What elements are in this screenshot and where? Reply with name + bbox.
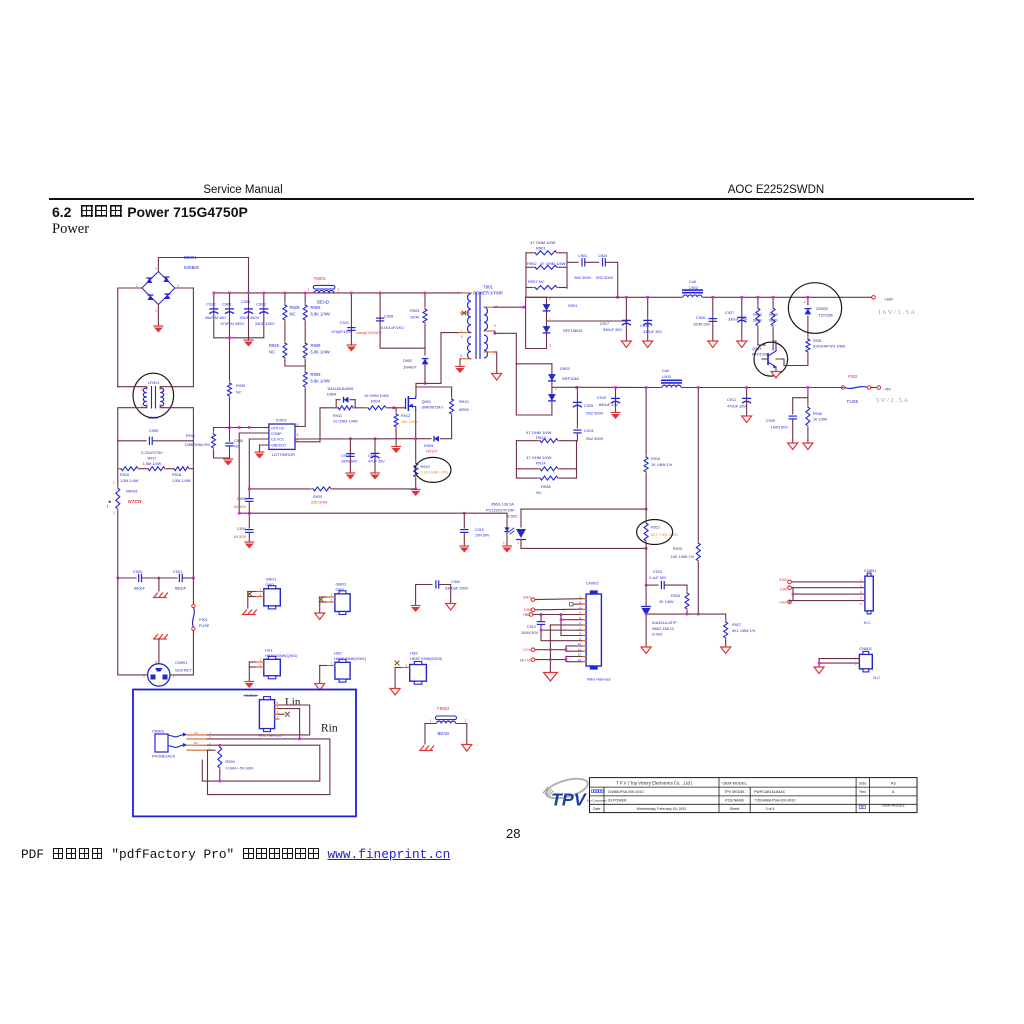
ground C911 bbox=[742, 416, 752, 423]
svg-text:1: 1 bbox=[260, 588, 262, 592]
svg-text:Sheet: Sheet bbox=[730, 807, 739, 811]
svg-text:R930: R930 bbox=[236, 383, 246, 388]
svg-text:OEM MODEL: OEM MODEL bbox=[722, 780, 747, 785]
svg-text:NTCR: NTCR bbox=[128, 499, 142, 505]
svg-text:C917: C917 bbox=[600, 321, 609, 326]
ground R927 bbox=[721, 647, 731, 654]
wire audio Rin path bbox=[208, 738, 330, 795]
svg-text:C925: C925 bbox=[584, 403, 594, 408]
svg-text:3: 3 bbox=[277, 705, 279, 709]
svg-text:2N2 500V: 2N2 500V bbox=[574, 275, 592, 280]
annotation circle R919 bbox=[415, 457, 451, 482]
label D904 bbox=[327, 386, 353, 397]
svg-text:C910: C910 bbox=[597, 395, 607, 400]
ground T901 pin5 bbox=[455, 367, 465, 374]
resistor R903 bbox=[410, 292, 427, 325]
capacitor C917 bbox=[600, 296, 631, 341]
svg-text:2: 2 bbox=[338, 288, 340, 292]
svg-text:F902: F902 bbox=[848, 374, 858, 379]
svg-text:R926: R926 bbox=[671, 594, 680, 598]
ground C914 bbox=[345, 473, 355, 480]
ground HS3 bbox=[390, 689, 400, 696]
svg-text:CN902: CN902 bbox=[586, 581, 599, 586]
svg-text:5: 5 bbox=[860, 602, 862, 606]
ground R919 bbox=[411, 488, 421, 496]
wire CN902 VOL pin10 bbox=[535, 646, 582, 650]
wire CN902 pin6 bbox=[550, 624, 581, 626]
resistor R931b bbox=[806, 337, 846, 354]
svg-text:Rin: Rin bbox=[321, 722, 338, 735]
thermistor NR901 bbox=[107, 469, 142, 578]
svg-text:ZD902: ZD902 bbox=[816, 306, 829, 311]
inductor L902 bbox=[682, 279, 703, 297]
stub CN904 pin2 X bbox=[279, 712, 290, 717]
svg-text:LD7750RGR: LD7750RGR bbox=[272, 452, 295, 457]
ground Q903 bbox=[771, 372, 781, 379]
svg-text:ENA: ENA bbox=[779, 578, 787, 582]
svg-text:R917: R917 bbox=[147, 457, 156, 461]
svg-text:C906: C906 bbox=[384, 314, 393, 319]
svg-text:C932: C932 bbox=[237, 497, 246, 501]
capacitor C903 bbox=[221, 292, 245, 338]
net label +5V CN902 bbox=[522, 612, 532, 617]
wire CN902 pin11 bbox=[565, 648, 582, 651]
svg-text:A3: A3 bbox=[891, 780, 897, 785]
svg-text:1 6 V / 1 . 5 A: 1 6 V / 1 . 5 A bbox=[878, 309, 915, 316]
ground IC903 bbox=[641, 647, 651, 654]
svg-text:N.C: N.C bbox=[873, 675, 880, 680]
svg-text:R901: R901 bbox=[536, 246, 546, 251]
diode D902 bbox=[403, 325, 428, 383]
resistor R907 bbox=[526, 279, 567, 290]
resistor R913 bbox=[516, 430, 576, 443]
svg-text:BEAD: BEAD bbox=[317, 300, 329, 305]
net label VOL bbox=[523, 647, 535, 652]
ground FB902 bbox=[462, 745, 472, 752]
wire IC901 pin CS bbox=[249, 439, 269, 486]
ground C910 bbox=[611, 413, 621, 420]
shunt regulator IC903 KIA431 bbox=[641, 585, 677, 647]
ground T901 pin8 bbox=[492, 374, 502, 381]
svg-text:2K 1/8W: 2K 1/8W bbox=[659, 600, 674, 604]
svg-text:680R: 680R bbox=[753, 319, 762, 323]
phonejack CN903 bbox=[152, 730, 211, 759]
svg-text:056G 158 12: 056G 158 12 bbox=[652, 627, 674, 631]
wire CN902 pin8 bbox=[560, 618, 582, 635]
resistor R919 bbox=[414, 439, 449, 489]
svg-text:1: 1 bbox=[331, 662, 333, 666]
svg-text:PWPCAB161AAAC: PWPCAB161AAAC bbox=[754, 790, 786, 794]
svg-text:LR901: LR901 bbox=[148, 380, 160, 385]
svg-text:45uF M 450: 45uF M 450 bbox=[205, 315, 227, 320]
svg-text:108KOHM=5%: 108KOHM=5% bbox=[184, 443, 210, 447]
capacitor C914 bbox=[341, 439, 358, 473]
svg-text:PHONEJACK: PHONEJACK bbox=[152, 755, 176, 759]
svg-text:1: 1 bbox=[260, 658, 262, 662]
svg-text:C901: C901 bbox=[578, 253, 587, 258]
svg-text:KIA431A-AT/P: KIA431A-AT/P bbox=[652, 621, 677, 625]
wire audio Lin path bbox=[208, 705, 310, 735]
svg-text:1: 1 bbox=[406, 664, 408, 668]
svg-text:6: 6 bbox=[297, 433, 299, 437]
ground bias bbox=[223, 458, 233, 466]
connector CN902 bbox=[578, 581, 602, 670]
resistor R916 bbox=[118, 441, 140, 483]
wire choke top left bbox=[118, 387, 147, 389]
svg-text:22 OHM 1/4W: 22 OHM 1/4W bbox=[333, 419, 358, 424]
svg-text:T901: T901 bbox=[483, 285, 493, 290]
svg-text:2: 2 bbox=[260, 593, 262, 597]
svg-text:R916: R916 bbox=[120, 473, 129, 477]
svg-text:Lin: Lin bbox=[194, 731, 198, 735]
capacitor C900 bbox=[416, 579, 469, 605]
svg-text:0 OHM +-5% 1/8W: 0 OHM +-5% 1/8W bbox=[226, 767, 255, 771]
ferrite bead FB902 bbox=[430, 706, 467, 736]
wire choke bottom left bbox=[118, 405, 147, 441]
connector CN801 bbox=[860, 568, 877, 625]
svg-text:3300pF 250V: 3300pF 250V bbox=[445, 586, 469, 591]
svg-text:C911: C911 bbox=[727, 397, 736, 402]
svg-text:C923: C923 bbox=[653, 570, 662, 574]
svg-text:680uF 10V: 680uF 10V bbox=[599, 402, 619, 407]
capacitor C915 bbox=[368, 439, 385, 473]
zener ZD902 bbox=[804, 296, 833, 337]
svg-text:D25B60: D25B60 bbox=[184, 265, 200, 270]
wire IC901 pin OTP bbox=[263, 427, 269, 429]
ground CN902 bbox=[544, 673, 558, 682]
svg-text:G4988-PSA-000-0010: G4988-PSA-000-0010 bbox=[608, 790, 644, 794]
svg-text:C915: C915 bbox=[368, 454, 377, 458]
ground HS2 bbox=[315, 684, 325, 691]
svg-text:1N 50V: 1N 50V bbox=[233, 505, 246, 509]
svg-text:R920: R920 bbox=[313, 495, 322, 499]
capacitor C933 bbox=[255, 292, 275, 338]
svg-text:33UF 450V: 33UF 450V bbox=[240, 315, 260, 320]
ground C929 bbox=[788, 443, 798, 450]
svg-text:R936: R936 bbox=[813, 412, 822, 416]
svg-text:R908: R908 bbox=[311, 343, 322, 348]
chassis ground GND1 bbox=[242, 610, 257, 615]
resistor R921 bbox=[644, 509, 678, 548]
svg-text:R938: R938 bbox=[541, 484, 551, 489]
wire right rail down bbox=[192, 469, 194, 578]
svg-text:R914: R914 bbox=[536, 461, 546, 466]
optocoupler IC902 bbox=[486, 502, 526, 549]
mount GND2 bbox=[319, 582, 351, 615]
capacitor C901 bbox=[574, 253, 599, 280]
svg-text:SRF1060: SRF1060 bbox=[562, 376, 580, 381]
svg-text:6.8K 1/4W: 6.8K 1/4W bbox=[311, 311, 330, 316]
ground R936 bbox=[803, 443, 813, 450]
annotation circle ZD902 bbox=[788, 283, 841, 334]
ferrite bead FB901 bbox=[308, 276, 352, 305]
transistor Q901 MOSFET bbox=[406, 396, 444, 411]
svg-text:R902: R902 bbox=[527, 261, 537, 266]
svg-text:C914: C914 bbox=[341, 454, 350, 458]
capacitor C912 bbox=[205, 292, 227, 338]
pin labels IC902 bbox=[503, 541, 520, 545]
resistor R928 bbox=[283, 292, 300, 322]
capacitor C905 bbox=[118, 428, 194, 466]
svg-text:C920: C920 bbox=[133, 569, 143, 574]
wire T901 pin1 bbox=[456, 292, 472, 295]
svg-text:C912: C912 bbox=[527, 625, 536, 629]
svg-text:COMP: COMP bbox=[271, 432, 282, 436]
svg-text:2N2 500V: 2N2 500V bbox=[596, 275, 614, 280]
socket CN901 bbox=[143, 660, 192, 686]
mount HS1 bbox=[249, 648, 298, 682]
svg-text:R905: R905 bbox=[311, 305, 322, 310]
svg-text:CN602: CN602 bbox=[859, 646, 872, 651]
svg-text:T P V ( Top Victory Electro: T P V ( Top Victory Electronics Co. , Lt… bbox=[616, 780, 693, 785]
ground C900 right bbox=[446, 604, 456, 611]
ground C917 bbox=[621, 341, 631, 348]
net label ENA bbox=[523, 595, 535, 602]
svg-text:680pF: 680pF bbox=[134, 586, 146, 591]
svg-text:5: 5 bbox=[297, 439, 299, 443]
svg-text:1: 1 bbox=[308, 288, 310, 292]
svg-text:9K1 1/8W 1%: 9K1 1/8W 1% bbox=[732, 629, 756, 633]
svg-text:Wednesday, February 16, 2011: Wednesday, February 16, 2011 bbox=[637, 807, 687, 811]
svg-text:FUSE: FUSE bbox=[847, 399, 858, 404]
svg-text:TPV MODEL: TPV MODEL bbox=[724, 790, 745, 794]
svg-text:A: A bbox=[892, 790, 895, 794]
net label DIM CN801 bbox=[780, 586, 791, 592]
wire opto bottom bbox=[521, 547, 647, 550]
svg-text:TZX22B: TZX22B bbox=[818, 313, 833, 318]
svg-text:Coil: Coil bbox=[662, 368, 669, 373]
capacitor C912b bbox=[521, 615, 581, 636]
wire FB902 right bbox=[457, 724, 467, 745]
svg-text:2: 2 bbox=[465, 719, 467, 723]
svg-text:IC901: IC901 bbox=[276, 418, 287, 423]
svg-text:L902: L902 bbox=[689, 285, 699, 290]
resistor R917 bbox=[146, 467, 167, 471]
wire CN902 pin9 bbox=[540, 629, 582, 641]
resistor R923 bbox=[671, 386, 701, 614]
svg-text:220 OHM: 220 OHM bbox=[311, 501, 327, 505]
capacitor C926 bbox=[240, 292, 260, 338]
wire D901 output to 16V rail bbox=[547, 320, 628, 323]
svg-text:715G4988-PSA-000-0010: 715G4988-PSA-000-0010 bbox=[754, 799, 796, 803]
svg-text:C926: C926 bbox=[241, 299, 250, 304]
svg-text:R909: R909 bbox=[311, 372, 322, 377]
svg-text:Wire Harness: Wire Harness bbox=[587, 677, 611, 682]
svg-text:FB902: FB902 bbox=[437, 706, 450, 711]
svg-text:0.22UF275V: 0.22UF275V bbox=[141, 451, 163, 455]
resistor R926 bbox=[659, 591, 689, 614]
svg-text:Size: Size bbox=[859, 781, 866, 785]
resistor R901 bbox=[526, 240, 567, 297]
svg-text:0.1uF 50V: 0.1uF 50V bbox=[649, 576, 667, 580]
svg-text:NC: NC bbox=[536, 490, 542, 495]
mount GND1 bbox=[247, 577, 280, 609]
svg-text:2: 2 bbox=[331, 599, 333, 603]
diode D905 bbox=[416, 436, 452, 454]
svg-text:+16V: +16V bbox=[778, 601, 787, 605]
wire R921 to C923 bbox=[645, 548, 647, 585]
svg-text:C919: C919 bbox=[475, 528, 484, 532]
svg-text:33UF 450V: 33UF 450V bbox=[255, 321, 275, 326]
label wire harness CN904 bbox=[258, 733, 288, 737]
svg-text:R931: R931 bbox=[813, 339, 822, 343]
resistor R902 bbox=[526, 253, 567, 288]
svg-text:Key Component: Key Component bbox=[587, 799, 607, 803]
svg-text:2: 2 bbox=[260, 664, 262, 668]
svg-text:100N 50V: 100N 50V bbox=[693, 322, 711, 327]
wire CN902 MUTE pin12 bbox=[535, 656, 582, 659]
wire FB902 left bbox=[425, 724, 436, 745]
svg-text:Rin: Rin bbox=[194, 741, 199, 745]
terminal +16V bbox=[872, 296, 916, 317]
wire socket left bbox=[118, 578, 148, 675]
svg-text:10 OHM 1/4W: 10 OHM 1/4W bbox=[364, 393, 389, 398]
label Lin bbox=[285, 697, 301, 709]
transistor Q903 bbox=[752, 345, 777, 369]
svg-text:R907 NC: R907 NC bbox=[528, 279, 545, 284]
mount HS2 bbox=[320, 651, 367, 684]
svg-text:NC: NC bbox=[290, 311, 296, 316]
svg-text:R913: R913 bbox=[536, 435, 546, 440]
terminal +5V bbox=[871, 386, 909, 404]
svg-text:4: 4 bbox=[461, 335, 463, 339]
resistor R909 bbox=[303, 360, 330, 389]
TPV logo bbox=[543, 775, 590, 809]
ground C927 bbox=[737, 341, 747, 348]
svg-text:Coil: Coil bbox=[689, 279, 696, 284]
svg-text:C913: C913 bbox=[584, 428, 593, 433]
svg-text:Date: Date bbox=[593, 807, 601, 811]
diode D903 bbox=[516, 364, 579, 415]
wire IC901 gnd bbox=[260, 445, 269, 452]
svg-text:0R05: 0R05 bbox=[459, 407, 469, 412]
svg-text:F901: F901 bbox=[199, 617, 208, 622]
svg-text:R921: R921 bbox=[651, 526, 660, 530]
ground C900 left bbox=[411, 606, 421, 613]
svg-text:GNDOUT: GNDOUT bbox=[271, 444, 287, 448]
resistor R920 bbox=[248, 487, 416, 505]
resistor R929 bbox=[269, 322, 287, 360]
svg-text:NC: NC bbox=[234, 445, 240, 449]
svg-text:C924: C924 bbox=[598, 253, 608, 258]
svg-text:2N2 500V: 2N2 500V bbox=[586, 411, 604, 416]
annotation circle Q903 bbox=[754, 342, 788, 376]
svg-text:510OHM=5% 1/8W: 510OHM=5% 1/8W bbox=[813, 345, 846, 349]
wire bias row bbox=[214, 426, 269, 429]
wire choke top right bbox=[160, 387, 193, 389]
svg-text:D904: D904 bbox=[327, 392, 337, 397]
svg-text:5 V / 2 . 5 A: 5 V / 2 . 5 A bbox=[876, 397, 908, 404]
svg-text:R915: R915 bbox=[651, 457, 660, 461]
ground C926b bbox=[708, 341, 718, 348]
svg-text:C912: C912 bbox=[206, 302, 215, 307]
capacitor C927 bbox=[725, 296, 748, 341]
svg-text:R918: R918 bbox=[172, 473, 181, 477]
svg-text:1: 1 bbox=[503, 541, 505, 545]
resistor R912 bbox=[394, 408, 419, 446]
svg-text:1: 1 bbox=[277, 715, 279, 719]
svg-text:D901: D901 bbox=[568, 303, 578, 308]
resistor R938 bbox=[516, 469, 576, 495]
svg-text:C926: C926 bbox=[696, 315, 705, 320]
svg-text:SMK0875FJ: SMK0875FJ bbox=[422, 405, 444, 410]
svg-text:R928: R928 bbox=[290, 305, 301, 310]
svg-text:GND1: GND1 bbox=[266, 577, 277, 582]
svg-text:0.33 OHM +-5%: 0.33 OHM +-5% bbox=[421, 471, 449, 475]
svg-text:R911: R911 bbox=[333, 413, 342, 418]
svg-text:8: 8 bbox=[297, 423, 299, 427]
mount HS3 bbox=[395, 651, 443, 689]
annotation circle R921 bbox=[637, 520, 673, 545]
svg-text:NC: NC bbox=[236, 389, 242, 394]
capacitor C924 bbox=[596, 253, 619, 299]
net label DIM bbox=[524, 607, 535, 612]
svg-text:R924: R924 bbox=[371, 399, 381, 404]
svg-text:Q901: Q901 bbox=[422, 399, 432, 404]
svg-text:R929: R929 bbox=[269, 343, 280, 348]
svg-text:3: 3 bbox=[141, 388, 143, 392]
svg-text:N.C: N.C bbox=[864, 620, 871, 625]
svg-text:R933: R933 bbox=[769, 313, 778, 317]
svg-text:1N4007: 1N4007 bbox=[403, 364, 417, 369]
fuse F902 bbox=[841, 374, 870, 404]
wire Q901 source bbox=[415, 411, 417, 439]
svg-text:HEAT SINK(Q901): HEAT SINK(Q901) bbox=[265, 653, 298, 658]
resistor R927 bbox=[724, 614, 756, 647]
wire bridge AC left bbox=[118, 288, 142, 387]
svg-text:680pF: 680pF bbox=[175, 586, 187, 591]
capacitor C919 bbox=[460, 513, 490, 546]
wire CN902 pin13 bbox=[565, 658, 582, 661]
svg-text:ENA: ENA bbox=[523, 595, 531, 600]
svg-text:03.POWER: 03.POWER bbox=[608, 799, 627, 803]
svg-text:D902: D902 bbox=[403, 358, 412, 363]
label Rin bbox=[321, 722, 338, 735]
svg-text:POWER X'FMR: POWER X'FMR bbox=[473, 291, 503, 296]
resistor R910 bbox=[416, 387, 470, 439]
wire IC901 OUT bbox=[295, 408, 326, 442]
wire C92x ground stem bbox=[158, 578, 160, 591]
capacitor C925 bbox=[573, 387, 604, 428]
svg-text:10K 1/8W 1%: 10K 1/8W 1% bbox=[671, 555, 695, 559]
wire D903 output bbox=[552, 386, 578, 389]
ground C934 bbox=[244, 542, 254, 549]
resistor R932 bbox=[753, 296, 765, 345]
svg-text:HS3: HS3 bbox=[410, 651, 418, 656]
chassis ground socket bbox=[153, 634, 168, 663]
ground GND2 bbox=[315, 613, 325, 620]
svg-text:9: 9 bbox=[494, 324, 496, 328]
svg-text:680R: 680R bbox=[769, 319, 778, 323]
svg-text:C929: C929 bbox=[766, 418, 775, 423]
svg-text:R912: R912 bbox=[401, 414, 410, 418]
svg-text:47UF 35V: 47UF 35V bbox=[368, 460, 385, 464]
svg-text:6.8K 1/4W: 6.8K 1/4W bbox=[311, 349, 330, 354]
audio section box bbox=[133, 690, 356, 817]
svg-text:2: 2 bbox=[518, 541, 520, 545]
wire audio jack pin2 loop bbox=[202, 744, 319, 781]
inductor L903 bbox=[661, 368, 682, 388]
wire R917 joins bbox=[140, 468, 172, 470]
svg-text:3: 3 bbox=[460, 330, 462, 334]
capacitor C921 bbox=[158, 569, 195, 591]
resistor R908 bbox=[303, 322, 330, 360]
capacitor C920 bbox=[117, 569, 159, 591]
svg-text:3: 3 bbox=[549, 344, 551, 348]
capacitor C934 bbox=[233, 513, 253, 542]
capacitor C935 bbox=[225, 428, 243, 459]
svg-text:GND: GND bbox=[266, 582, 275, 587]
